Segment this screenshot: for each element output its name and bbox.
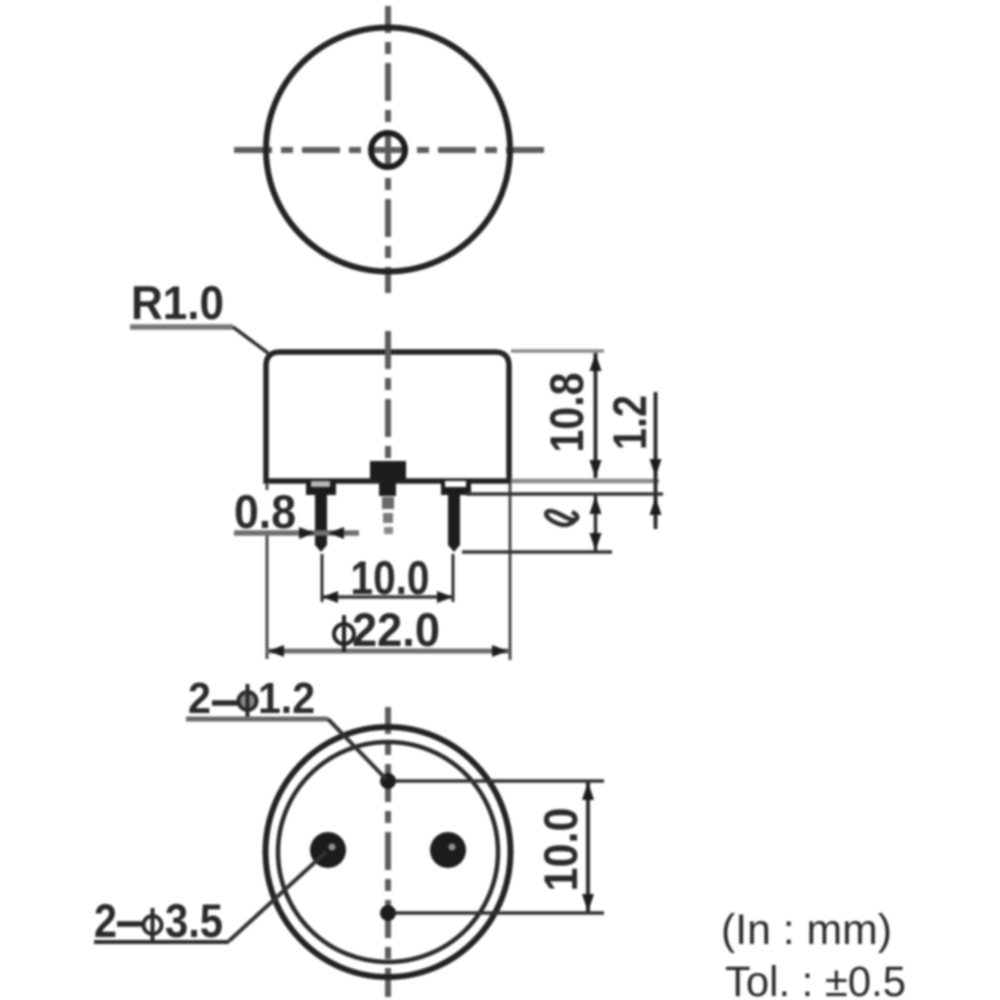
right pin flange bbox=[441, 480, 471, 495]
center pin stub below body bbox=[379, 481, 396, 496]
dimension 10.0 line (bottom view) bbox=[586, 782, 590, 912]
dimension 0.8 line bbox=[234, 530, 359, 536]
shoulder line (flange bottom) bbox=[466, 492, 663, 496]
pin hole bottom (phi 1.2) bbox=[380, 905, 396, 921]
extension line pin left bbox=[321, 554, 324, 602]
svg-text:R1.0: R1.0 bbox=[131, 276, 224, 329]
extension line top pin bbox=[396, 779, 604, 783]
dimension 10.0 arrow right bbox=[437, 591, 453, 603]
dimension 1.2 arrow lower (points up) bbox=[650, 497, 662, 515]
pin tip line bbox=[462, 550, 612, 554]
center tab on body bottom bbox=[370, 461, 406, 480]
dimension 1.2 arrow upper (points down) bbox=[650, 459, 662, 477]
dimension l arrow bottom (points down) bbox=[590, 533, 602, 551]
extension line body top right bbox=[511, 349, 604, 353]
R1.0 leader bbox=[233, 327, 268, 353]
dimension 10.0 line (pins) bbox=[322, 595, 453, 599]
dimension phi22.0 arrow left bbox=[268, 645, 284, 657]
extension line phi22 left bbox=[266, 483, 269, 659]
body outline (rounded top corners) bbox=[266, 352, 509, 481]
extension line bottom pin bbox=[396, 911, 604, 915]
top view vertical centerline bbox=[385, 6, 391, 293]
svg-text:Tol. : ±0.5: Tol. : ±0.5 bbox=[725, 958, 906, 1000]
label 2-phi3.5 underline bbox=[94, 940, 229, 944]
R1.0 underline bbox=[130, 324, 233, 330]
dimension 10.8 line bbox=[594, 353, 598, 478]
dimension 10.8 arrow bottom bbox=[590, 460, 602, 478]
svg-text:1.2: 1.2 bbox=[603, 395, 656, 450]
dimension 0.8 arrow right bbox=[299, 527, 315, 539]
dimension phi22.0 line bbox=[267, 649, 509, 654]
dimension 10.8 arrow top bbox=[590, 353, 602, 371]
extension line phi22 right bbox=[509, 483, 512, 660]
dimension 10.8 text (rotated) bbox=[540, 373, 593, 453]
mounting hole left (phi 3.5) bbox=[310, 832, 346, 868]
svg-text:2: 2 bbox=[188, 675, 211, 723]
bottom view inner circle bbox=[278, 742, 498, 962]
pin hole top (phi 1.2) bbox=[380, 773, 396, 789]
dimension 1.2 text (rotated) bbox=[603, 395, 656, 450]
right pin leg bbox=[448, 495, 460, 552]
svg-text:2: 2 bbox=[94, 894, 117, 947]
extension line body bottom right bbox=[511, 479, 659, 484]
dimension 10.0 arrow left bbox=[322, 591, 338, 603]
dimension 0.8 arrow left bbox=[328, 527, 344, 539]
dimension 10.0 arrow top bbox=[582, 782, 594, 800]
side view vertical centerline bbox=[385, 331, 391, 459]
left pin flange bbox=[306, 480, 336, 495]
svg-text:10.0: 10.0 bbox=[534, 808, 587, 892]
label 2-phi3.5 leader bbox=[229, 852, 326, 941]
top view center hole circle bbox=[371, 133, 405, 167]
top view outer circle (case outline) bbox=[266, 28, 510, 272]
left pin leg bbox=[315, 495, 327, 552]
svg-text:(In : mm): (In : mm) bbox=[721, 906, 892, 954]
svg-text:10.0: 10.0 bbox=[351, 551, 430, 604]
script ell symbol (rotated) bbox=[546, 511, 578, 525]
phi symbol of 22.0 bbox=[334, 624, 354, 644]
bottom view vertical centerline bbox=[385, 707, 391, 997]
svg-text:10.8: 10.8 bbox=[540, 373, 593, 453]
dimension l line bbox=[594, 495, 598, 551]
label 2-phi1.2 leader bbox=[328, 719, 386, 779]
dimension 10.0 arrow bottom bbox=[582, 894, 594, 912]
svg-text:0.8: 0.8 bbox=[234, 485, 296, 538]
extension line pin right bbox=[452, 554, 455, 602]
svg-text:22.0: 22.0 bbox=[352, 603, 440, 656]
svg-text:1.2: 1.2 bbox=[258, 675, 315, 723]
dimension 1.2 line bbox=[654, 392, 658, 529]
svg-text:3.5: 3.5 bbox=[165, 894, 223, 947]
dimension phi22.0 arrow right bbox=[492, 645, 508, 657]
bottom view outer circle bbox=[266, 727, 511, 977]
dimension l arrow top (points up) bbox=[590, 496, 602, 514]
mounting hole right (phi 3.5) bbox=[430, 832, 466, 868]
dimension 0.8 text background bbox=[231, 490, 298, 532]
label 2-phi1.2 underline bbox=[186, 717, 328, 722]
dimension 10.0 text (rotated) bbox=[534, 808, 587, 892]
top view horizontal centerline bbox=[234, 147, 544, 153]
